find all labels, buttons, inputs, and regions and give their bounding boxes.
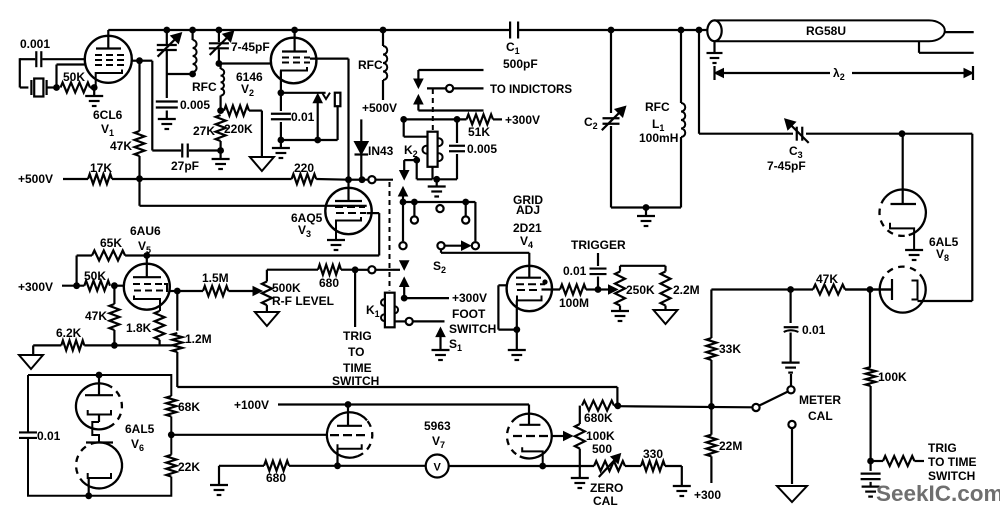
svg-text:0.01: 0.01: [563, 264, 587, 278]
node crystal-50K: [53, 84, 60, 91]
svg-text:0.005: 0.005: [467, 142, 497, 156]
svg-text:+300V: +300V: [452, 291, 487, 305]
node tank ground: [643, 204, 650, 211]
node K2 ground: [433, 176, 440, 183]
V8b cathode: [912, 281, 918, 300]
svg-text:RFC: RFC: [358, 58, 383, 72]
V7b cathode: [522, 447, 543, 466]
ground 330: [673, 485, 691, 487]
ground 0.01 V8: [782, 362, 800, 364]
node K2 coil top: [400, 116, 407, 123]
node C2 top: [608, 27, 615, 34]
chassis ground 500K: [266, 305, 268, 312]
svg-text:SWITCH: SWITCH: [449, 322, 496, 336]
svg-text:1.2M: 1.2M: [185, 332, 212, 346]
crystal Y1: [30, 80, 32, 95]
svg-text:22K: 22K: [178, 460, 200, 474]
svg-text:5963: 5963: [424, 419, 451, 433]
coax center conductor out: [945, 31, 974, 33]
svg-text:6AL5: 6AL5: [125, 422, 155, 436]
V7a grid dashes: [330, 434, 365, 436]
wire long to 680K: [177, 386, 617, 388]
wire 330 to ground: [665, 465, 682, 467]
variable capacitor C2: [603, 117, 620, 119]
contact arrow down 680 rail: [400, 261, 409, 270]
contact arrow up 680 rail: [400, 278, 409, 287]
resistor 100K V8: [869, 290, 871, 368]
resistor 22M: [706, 435, 716, 457]
wire V2 grid: [219, 62, 271, 64]
resistor 2.2M: [661, 272, 671, 306]
node S2 right: [462, 199, 469, 206]
node S2 left: [400, 199, 407, 206]
pot 500 zero cal: [594, 461, 625, 471]
inductor tank coil: [192, 30, 194, 40]
V7b grid dashes: [513, 435, 548, 437]
svg-text:7-45pF: 7-45pF: [767, 159, 806, 173]
contact arrow down line1: [414, 79, 423, 88]
svg-text:R-F LEVEL: R-F LEVEL: [272, 294, 334, 308]
svg-text:0.01: 0.01: [802, 323, 826, 337]
ground S1: [432, 349, 450, 351]
wire +300V V5: [62, 285, 84, 287]
K1 coil bumps: [381, 299, 385, 306]
S2 contact stem mid: [413, 202, 415, 217]
meter cal blade: [759, 392, 788, 406]
resistor 17K: [88, 174, 112, 184]
svg-text:1.8K: 1.8K: [126, 321, 152, 335]
wire 47K left: [791, 288, 813, 290]
V4 grid lead: [498, 284, 507, 286]
V2 cathode: [281, 67, 307, 75]
svg-text:ADJ: ADJ: [516, 203, 540, 217]
S2 contact floating: [436, 205, 443, 212]
capacitor 0.01 V8: [789, 290, 791, 324]
V1 grid dashes: [95, 54, 124, 56]
svg-text:680: 680: [266, 471, 286, 485]
svg-text:500pF: 500pF: [503, 57, 538, 71]
wire meter to V7b: [449, 465, 594, 467]
wire K2 armature: [413, 157, 420, 164]
svg-text:22M: 22M: [719, 439, 742, 453]
ground K2: [436, 179, 438, 186]
tube V8a 6AL5: [902, 134, 904, 204]
node V6 bottom: [85, 492, 92, 499]
svg-text:RFC: RFC: [192, 80, 217, 94]
tube V6b 6AL5: [80, 442, 122, 488]
resistor trig out: [883, 456, 914, 466]
node 0.005 top: [454, 116, 461, 123]
wire 500 to 330: [625, 465, 641, 467]
resistor 6.2K: [61, 340, 84, 350]
wire V8b out: [918, 300, 926, 302]
node V1 grid: [136, 57, 143, 64]
resistor 68K: [166, 396, 176, 417]
V5 grid dashes: [133, 283, 162, 285]
inductor RFC L1 100mH: [681, 103, 685, 137]
resistor 1.2M: [176, 291, 178, 331]
svg-text:IN43: IN43: [368, 144, 394, 158]
wire 220 to V3 node: [316, 178, 348, 181]
resistor 330: [641, 461, 665, 471]
svg-text:50K: 50K: [84, 269, 106, 283]
capacitor C1 500pF: [509, 22, 511, 39]
mech link K2 upper: [432, 89, 434, 130]
svg-text:TIME: TIME: [343, 361, 372, 375]
wire rail to contact: [362, 179, 393, 181]
resistor 680K: [579, 406, 581, 424]
node V8a plate: [899, 130, 906, 137]
wiper arrow 500K: [253, 287, 262, 296]
meter cal common: [752, 404, 759, 411]
node top rail / coil stem: [189, 27, 196, 34]
pot 250K: [619, 266, 621, 272]
ground 250K: [619, 306, 621, 312]
wire S2 to V4 plate: [441, 252, 529, 254]
ground 0.005: [166, 111, 168, 120]
wire 33K top: [711, 288, 790, 290]
contact arrow up 500V rail: [399, 187, 408, 196]
svg-text:+300V: +300V: [505, 113, 540, 127]
capacitor 0.01 V2 cathode: [280, 93, 282, 111]
wire 17K to 220: [112, 178, 292, 180]
ground V4: [516, 330, 518, 350]
node S2 mid: [411, 199, 418, 206]
pot 100K: [575, 424, 585, 449]
wire rail to IN43: [349, 179, 363, 181]
wire V3 grid: [138, 179, 140, 206]
node trig out: [867, 458, 874, 465]
svg-text:330: 330: [643, 447, 663, 461]
V4 plate: [528, 266, 530, 278]
variable capacitor C3: [796, 127, 798, 141]
wire 220K to chassis: [249, 109, 262, 111]
svg-text:47K: 47K: [816, 272, 838, 286]
V6a cathode: [88, 410, 111, 415]
node V5 out: [174, 288, 181, 295]
variable capacitor 7-45pF: [209, 42, 229, 44]
node 47K/17K junction: [136, 175, 143, 182]
node 27K/27pF: [217, 147, 224, 154]
dimension lambda/2: [713, 66, 715, 80]
node 50K left: [73, 282, 80, 289]
wire meter line left: [219, 465, 264, 467]
inductor RFC V2 grid: [220, 64, 222, 70]
lamp I1: [335, 93, 341, 107]
chassis ground 2.2M: [664, 306, 666, 311]
resistor 27K: [216, 115, 226, 141]
wire +100V to V7b: [348, 403, 529, 405]
wire input left drop: [19, 58, 21, 87]
node 50K right: [111, 282, 118, 289]
node V7a plate: [345, 401, 352, 408]
wire C2 column: [610, 30, 612, 113]
variable capacitor C4: [166, 30, 168, 44]
V4 cathode: [517, 296, 542, 301]
node cathode junction: [91, 84, 98, 91]
V2 grid dashes: [282, 57, 310, 59]
V6b plate bar: [86, 441, 113, 443]
V5 plate bar: [146, 256, 148, 278]
wire grid V1 branch: [140, 60, 153, 62]
capacitor 27pF: [152, 149, 181, 151]
wire 6.2K line: [33, 344, 61, 346]
svg-text:100K: 100K: [878, 370, 907, 384]
svg-text:220: 220: [294, 161, 314, 175]
contact arrow up line1: [414, 95, 423, 104]
chassis ground meter cal: [777, 486, 807, 502]
wire K2 coil top lead: [403, 119, 405, 136]
resistor 47K V1: [138, 61, 140, 131]
diode IN43: [360, 155, 362, 180]
svg-text:0.001: 0.001: [20, 37, 50, 51]
wire 100M to node: [586, 288, 598, 290]
svg-text:TRIGGER: TRIGGER: [571, 238, 626, 252]
V2 screen to rail: [310, 57, 349, 59]
node 680K right: [614, 402, 621, 409]
svg-text:ZERO: ZERO: [590, 481, 623, 495]
wire indicator line3: [418, 109, 483, 111]
svg-text:500K: 500K: [272, 281, 301, 295]
pot 500K: [266, 270, 268, 282]
svg-text:6.2K: 6.2K: [56, 326, 82, 340]
foot switch S1 arrow: [436, 328, 445, 337]
resistor 1.8K: [155, 311, 165, 340]
node V6 top: [96, 372, 103, 379]
ground 100K pot: [571, 477, 589, 479]
V8b plate bar: [891, 279, 893, 300]
tube V1 6CL6: [85, 36, 132, 83]
node K1 armature wire: [401, 295, 408, 302]
svg-text:51K: 51K: [468, 125, 490, 139]
chassis ground 6.2K: [19, 355, 43, 369]
capacitor 0.01 trigger: [597, 253, 599, 266]
tube V4 2D21: [507, 266, 552, 311]
svg-text:47K: 47K: [110, 139, 132, 153]
V7a plate bar: [337, 425, 362, 427]
chassis ground 220K: [250, 157, 274, 171]
V3 plate bar: [347, 180, 349, 201]
wire V3 screen rail: [367, 212, 380, 214]
ground V1 cathode: [93, 88, 95, 97]
tube V3 6AQ5: [325, 188, 371, 234]
mech link S2-K1: [389, 182, 391, 291]
wire C3 line: [698, 30, 700, 134]
node V3 plate: [345, 176, 352, 183]
tube V7b 5963: [528, 414, 530, 425]
node plate rail / RFC: [380, 27, 387, 34]
svg-text:2D21: 2D21: [513, 221, 542, 235]
resistor 1.5M: [177, 290, 203, 292]
V5 cathode: [134, 296, 160, 312]
resistor 47K V5: [113, 286, 115, 304]
svg-text:2.2M: 2.2M: [673, 283, 700, 297]
svg-text:RG58U: RG58U: [806, 24, 846, 38]
svg-text:100mH: 100mH: [639, 131, 678, 145]
svg-text:RFC: RFC: [645, 100, 670, 114]
svg-text:50K: 50K: [63, 70, 85, 84]
svg-text:17K: 17K: [90, 161, 112, 175]
V7b wiper out: [551, 435, 564, 437]
svg-text:6AQ5: 6AQ5: [291, 211, 323, 225]
svg-text:7-45pF: 7-45pF: [231, 40, 270, 54]
meter V: [426, 455, 449, 478]
ground V8a: [905, 249, 923, 251]
resistor 22K: [166, 455, 176, 477]
ground trig out: [862, 486, 880, 488]
resistor 47K V8: [813, 285, 845, 295]
resistor 220K: [220, 107, 222, 111]
resistor 100M: [560, 285, 586, 295]
ground coax: [713, 41, 715, 53]
svg-text:0.005: 0.005: [180, 98, 210, 112]
tube V5 6AU6: [124, 264, 170, 310]
S2 wiper: [437, 242, 444, 249]
resistor 65K: [92, 251, 125, 261]
wire cathode test branch: [281, 92, 326, 94]
node top rail / C4 stem: [163, 27, 170, 34]
V6a plate bar: [85, 394, 113, 396]
wire +100V: [278, 403, 348, 405]
svg-text:+500V: +500V: [362, 101, 397, 115]
S2 contact stem right: [465, 202, 467, 217]
node IN43 bottom: [359, 176, 366, 183]
resistor 51K: [467, 114, 494, 124]
node 68K/22K: [168, 431, 175, 438]
tube V8b 6AL5: [880, 280, 926, 313]
node 0.01 bottom: [278, 137, 285, 144]
connector circle 500V rail: [368, 176, 375, 183]
svg-text:+300V: +300V: [18, 280, 53, 294]
wire V7a grid: [171, 434, 327, 436]
wire 6.2K to chassis: [32, 345, 34, 355]
svg-text:0.01: 0.01: [37, 429, 61, 443]
wire 47K to V8b: [845, 288, 892, 290]
V3 grid dashes: [335, 206, 365, 208]
node V7a cathode: [334, 462, 341, 469]
wire +500V: [63, 178, 88, 180]
svg-text:0.01: 0.01: [291, 110, 315, 124]
wire indicator line1: [418, 69, 483, 71]
wire trig stub: [352, 266, 359, 273]
node V4 cathode: [513, 326, 520, 333]
svg-text:65K: 65K: [100, 236, 122, 250]
wire L1 column: [680, 30, 682, 103]
relay K2: [428, 132, 438, 167]
resistor 50K V5: [84, 281, 110, 291]
V1 plate: [96, 47, 121, 49]
wire K2 coil bottom: [431, 167, 433, 180]
svg-text:TO: TO: [348, 345, 364, 359]
svg-text:CAL: CAL: [593, 494, 618, 508]
svg-text:6CL6: 6CL6: [93, 108, 123, 122]
wire meter cal line: [618, 406, 753, 407]
svg-text:6AU6: 6AU6: [130, 224, 161, 238]
node 6.2K junction: [111, 342, 118, 349]
resistor 680 rail: [318, 265, 341, 275]
V2 plate: [282, 50, 307, 52]
wire 65K riser: [75, 256, 77, 286]
K1 contact: [395, 320, 406, 322]
wire 51K to +300V: [493, 118, 502, 120]
svg-text:1.5M: 1.5M: [202, 271, 229, 285]
tube V2 6146: [271, 38, 317, 84]
V8a plate bar: [891, 203, 917, 205]
wire S2 bus: [403, 201, 475, 203]
inductor RFC +500V: [382, 30, 384, 46]
svg-text:680K: 680K: [584, 411, 613, 425]
svg-text:47K: 47K: [85, 309, 107, 323]
test point arrow V2: [313, 94, 322, 103]
meter cal contact up: [787, 386, 794, 393]
svg-text:TRIG: TRIG: [343, 329, 372, 343]
wire 27K bottom: [220, 141, 222, 151]
wire grid V5: [114, 285, 124, 287]
coax RG58U body: [715, 20, 945, 41]
wire 680 to meter: [289, 465, 426, 467]
svg-text:27K: 27K: [193, 124, 215, 138]
svg-text:250K: 250K: [626, 283, 655, 297]
K2 coil bumps: [438, 138, 443, 146]
svg-text:+300: +300: [694, 488, 721, 502]
svg-text:TO INDICTORS: TO INDICTORS: [490, 84, 572, 96]
node meter cal: [708, 403, 715, 410]
node V2 cathode: [278, 89, 285, 96]
capacitor 0.005 tank: [156, 100, 178, 102]
V3 cathode: [336, 217, 361, 240]
node V2 plate rail: [291, 27, 298, 34]
node trigger: [595, 286, 602, 293]
coax shield tap: [918, 41, 920, 53]
V6a-V6b link: [98, 415, 100, 423]
V7b plate bar: [519, 424, 540, 426]
svg-text:33K: 33K: [719, 342, 741, 356]
node V5 plate: [143, 252, 150, 259]
ground meter line: [210, 484, 228, 486]
wire 0.005 column: [166, 74, 168, 98]
capacitor 0.01 V6: [19, 431, 37, 433]
resistor 50K: [61, 83, 91, 93]
wire V8 right: [902, 133, 972, 135]
relay K1: [385, 293, 395, 328]
wire top plate rail: [108, 29, 509, 31]
node RFC/220K/27K: [217, 107, 224, 114]
svg-text:CAL: CAL: [808, 409, 833, 423]
V4 grid dashes: [516, 283, 545, 285]
svg-text:SeekIC.com: SeekIC.com: [876, 481, 1000, 506]
node V7b cathode: [539, 463, 546, 470]
V1 cathode: [96, 70, 122, 88]
wire V6 box: [28, 375, 171, 496]
resistor 680 meter: [264, 461, 289, 471]
wire crystal to grid: [55, 65, 57, 88]
svg-text:680: 680: [319, 276, 339, 290]
wire to +300V K1: [404, 297, 449, 299]
resistor 33K: [710, 290, 712, 339]
svg-text:V: V: [434, 462, 442, 474]
wire S2 pole left: [402, 202, 404, 241]
wire tank bottom: [167, 73, 193, 75]
V6b cathode: [88, 473, 111, 478]
node L1 top: [678, 27, 685, 34]
ground V2 cathode circuit: [280, 140, 282, 148]
wire indicator line2: [427, 87, 446, 89]
variable capacitor 7-45pF stem: [218, 30, 220, 42]
svg-text:68K: 68K: [178, 400, 200, 414]
wire top plate rail right of C1: [519, 29, 708, 31]
svg-text:TO TIME: TO TIME: [928, 455, 976, 469]
wire S2 pole right: [474, 202, 476, 241]
